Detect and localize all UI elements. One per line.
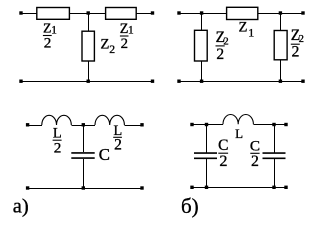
svg-text:2: 2 [216,46,224,63]
svg-text:Z: Z [100,36,109,52]
svg-text:1: 1 [248,26,254,40]
svg-text:2: 2 [219,152,227,170]
svg-text:2: 2 [109,43,115,56]
svg-text:Z: Z [239,20,248,36]
svg-text:L: L [235,127,243,141]
svg-text:2: 2 [121,36,128,52]
svg-text:2: 2 [292,44,300,61]
svg-text:2: 2 [251,153,259,170]
svg-text:Z: Z [43,21,51,36]
svg-text:б): б) [181,194,199,218]
svg-text:1: 1 [51,24,57,36]
svg-text:2: 2 [44,35,52,52]
svg-text:C: C [99,145,110,164]
svg-text:1: 1 [128,25,134,37]
svg-text:а): а) [13,195,29,217]
svg-text:2: 2 [54,139,62,156]
svg-text:2: 2 [223,36,228,47]
svg-text:2: 2 [114,137,122,154]
